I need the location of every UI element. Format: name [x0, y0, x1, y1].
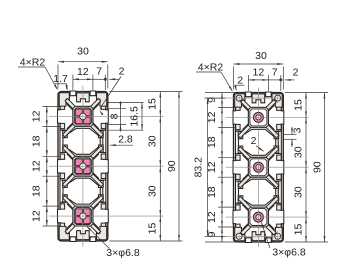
pink round hole 1 of B (3 x dia 6.8) — [253, 112, 263, 122]
svg-text:3×φ6.8: 3×φ6.8 — [106, 247, 140, 259]
closed cavity between cells at y=30 of B — [239, 129, 276, 155]
svg-text:12: 12 — [253, 67, 265, 79]
centerline core 3 of B — [226, 216, 309, 218]
svg-text:18: 18 — [30, 135, 42, 147]
side slot lips at core 1 of A — [60, 104, 64, 109]
svg-text:15: 15 — [293, 224, 305, 236]
bottom corner blocks of A — [59, 226, 69, 239]
closed-slot hook tabs at y=60 of B — [238, 182, 243, 189]
svg-text:12: 12 — [77, 66, 89, 78]
side slot cavities at core 3 of A — [58, 202, 73, 230]
closed cavity between cells at y=60 of B — [239, 179, 276, 205]
bottom center T-block of B — [252, 232, 265, 241]
pink cross hole 1 of A (3 x dia 6.8) — [78, 112, 88, 122]
centerline core 1 of A — [49, 115, 164, 117]
side slot lips at core 3 of B — [236, 205, 240, 210]
side slot cavities at core 1 of B — [233, 104, 248, 132]
corner screw holes of B — [236, 95, 242, 101]
dimension 90 (A overall height) — [178, 92, 180, 242]
centerline core 2 of B — [226, 166, 309, 168]
bottom face slot region of A — [61, 230, 105, 238]
dimension 8 (A side slot opening) — [108, 107, 126, 109]
diagonal webs of B — [241, 100, 252, 111]
svg-text:30: 30 — [293, 146, 305, 158]
svg-text:1.7: 1.7 — [53, 73, 68, 85]
svg-text:90: 90 — [312, 161, 324, 173]
corner hole axis lines of B — [205, 97, 281, 99]
dimension 3 (B floor thickness) — [283, 133, 296, 135]
diagonal webs of A — [65, 99, 76, 110]
svg-text:2.8: 2.8 — [118, 134, 133, 146]
centerline core 2 of A — [49, 165, 164, 167]
svg-text:8: 8 — [109, 113, 121, 119]
pink round hole 3 of B (3 x dia 6.8) — [253, 212, 263, 222]
svg-text:16.5: 16.5 — [128, 106, 140, 127]
core block 3 of A — [73, 206, 93, 226]
wall channel strips of A — [60, 103, 63, 230]
pink cross hole 3 of A (3 x dia 6.8) — [78, 211, 88, 221]
side slot cavities at core 3 of B — [233, 203, 248, 231]
side slot lips at core 2 of A — [60, 154, 64, 159]
dimension 12 (A slot pitch) — [73, 78, 93, 80]
closed cavity between cells at y=30 of A — [63, 128, 100, 154]
dimension 12 (B slot pitch) — [248, 79, 268, 81]
bottom center T-block of A — [77, 231, 90, 240]
closed-slot hook tabs at y=30 of B — [238, 132, 243, 139]
svg-text:7: 7 — [96, 66, 102, 78]
svg-text:12: 12 — [30, 210, 42, 222]
top center T-block of B — [252, 94, 265, 103]
pink cross hole 2 of A (3 x dia 6.8) — [78, 161, 88, 171]
dimension 7 (A slot to edge) — [93, 78, 105, 80]
svg-text:2: 2 — [293, 66, 299, 78]
top center T-block of A — [77, 93, 90, 102]
right chain dimensions of B: 15/30/30/15 — [285, 92, 328, 94]
svg-text:18: 18 — [30, 185, 42, 197]
closed-slot hook tabs at y=30 of A — [63, 131, 68, 138]
top face slot region of B — [237, 96, 281, 104]
dimension 7 (B slot to edge) — [268, 79, 280, 81]
svg-text:3: 3 — [292, 127, 304, 133]
svg-text:30: 30 — [147, 185, 159, 197]
svg-text:2: 2 — [251, 135, 257, 147]
svg-text:2: 2 — [119, 66, 125, 78]
centerline core 1 of B — [226, 116, 309, 118]
svg-text:15: 15 — [293, 99, 305, 111]
wall channel strips of B — [236, 104, 239, 231]
core block 1 of A — [73, 106, 93, 126]
core block 2 of B — [248, 157, 268, 177]
top corner blocks of B — [235, 94, 245, 107]
svg-text:30: 30 — [255, 50, 267, 62]
centerline vertical of A — [82, 86, 84, 248]
leader 2 to web of A — [100, 77, 121, 109]
top corner blocks of A — [59, 93, 69, 106]
dimension 30 (B top width) — [234, 63, 284, 65]
side slot cavities at core 2 of B — [233, 154, 248, 182]
core block 3 of B — [248, 207, 268, 227]
side slot cavities at core 2 of A — [58, 153, 73, 181]
dimension 16.5 (A side slot cavity) — [108, 102, 144, 104]
bottom face slot region of B — [237, 231, 281, 239]
top face slot region of A — [61, 95, 105, 103]
closed-slot hook tabs at y=60 of A — [63, 181, 68, 188]
svg-text:4×R2: 4×R2 — [20, 56, 46, 68]
bottom corner blocks of B — [235, 227, 245, 240]
svg-text:30: 30 — [293, 186, 305, 198]
svg-text:7: 7 — [272, 67, 278, 79]
core block 1 of B — [248, 107, 268, 127]
svg-text:12: 12 — [30, 110, 42, 122]
centerline vertical of B — [257, 88, 259, 248]
svg-text:12: 12 — [30, 160, 42, 172]
svg-text:83.2: 83.2 — [192, 157, 204, 178]
svg-text:3×φ6.8: 3×φ6.8 — [272, 246, 306, 258]
left chain dimensions of B: 9/12/18/12/18/12/9 — [205, 92, 235, 94]
side slot cavities at core 1 of A — [58, 103, 73, 131]
side slot lips at core 3 of A — [60, 204, 64, 209]
side slot lips at core 1 of B — [236, 105, 240, 110]
right chain dimensions of A: 15/30/30/15 — [109, 91, 182, 93]
core block 2 of A — [73, 156, 93, 176]
profile B outer outline — [234, 93, 284, 243]
svg-text:30: 30 — [147, 135, 159, 147]
svg-text:2: 2 — [237, 75, 243, 87]
dimension 30 (A top width) — [58, 61, 108, 63]
closed cavity between cells at y=60 of A — [63, 178, 100, 204]
svg-text:4×R2: 4×R2 — [198, 61, 224, 73]
dimension 2 (B edge wall) — [285, 79, 295, 81]
profile A outer outline — [58, 92, 108, 242]
centerline core 3 of A — [49, 215, 164, 217]
svg-text:15: 15 — [147, 98, 159, 110]
svg-text:15: 15 — [147, 223, 159, 235]
pink round hole 2 of B (3 x dia 6.8) — [253, 162, 263, 172]
dimension 83.2 (B corner hole span) — [205, 97, 226, 99]
left chain dimensions of A: 12/18/12/18/12 — [43, 105, 60, 107]
side slot lips at core 2 of B — [236, 155, 240, 160]
svg-text:90: 90 — [166, 160, 178, 172]
dimension 2 (A edge wall) — [109, 78, 119, 80]
svg-text:30: 30 — [77, 46, 89, 58]
dimension 90 (B overall height) — [324, 93, 326, 243]
